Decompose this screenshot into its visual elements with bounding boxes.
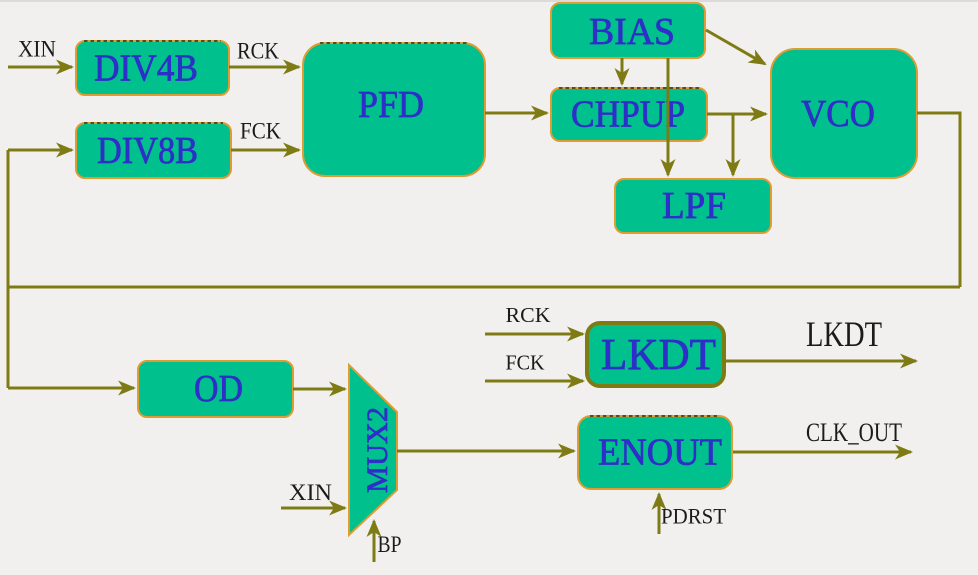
wire feedback horizontal bbox=[8, 286, 960, 289]
block DIV4B bbox=[76, 41, 229, 95]
wire BIAS down to CHPUP bbox=[621, 58, 624, 84]
svg-text:XIN: XIN bbox=[289, 480, 332, 505]
svg-text:OD: OD bbox=[194, 368, 243, 410]
wire PDRST into ENOUT bbox=[658, 494, 661, 534]
wire RCK from DIV4B to PFD bbox=[229, 66, 299, 69]
wire RCK into LKDT bbox=[485, 333, 583, 336]
svg-text:XIN: XIN bbox=[18, 37, 56, 62]
wire PFD to CHPUP bbox=[485, 112, 547, 115]
svg-text:BP: BP bbox=[378, 532, 402, 557]
wire to OD bbox=[8, 387, 134, 390]
wire MUX2 to ENOUT bbox=[397, 450, 574, 453]
wire XIN input to DIV4B bbox=[8, 66, 72, 69]
svg-text:DIV4B: DIV4B bbox=[94, 48, 198, 90]
wire BIAS through to LPF bbox=[667, 58, 670, 175]
block BIAS bbox=[551, 3, 705, 58]
svg-text:DIV8B: DIV8B bbox=[97, 130, 198, 172]
block ENOUT bbox=[578, 416, 732, 489]
svg-text:RCK: RCK bbox=[237, 39, 279, 64]
svg-text:LKDT: LKDT bbox=[601, 330, 716, 379]
wire XIN to MUX2 bbox=[281, 507, 345, 510]
block VCO bbox=[771, 49, 917, 178]
mux MUX2 bbox=[349, 365, 397, 535]
block CHPUP bbox=[551, 88, 707, 141]
wire BP into MUX2 bbox=[373, 521, 376, 562]
svg-text:MUX2: MUX2 bbox=[361, 407, 394, 493]
wire BIAS diagonal to VCO bbox=[706, 30, 765, 64]
svg-text:VCO: VCO bbox=[801, 93, 875, 135]
block LKDT bbox=[587, 323, 724, 386]
svg-text:BIAS: BIAS bbox=[589, 11, 675, 53]
wire VCO output to feedback bbox=[917, 113, 960, 287]
svg-text:FCK: FCK bbox=[240, 119, 281, 144]
wire OD to MUX2 bbox=[293, 388, 345, 391]
wire CHPUP to VCO bbox=[707, 113, 766, 116]
wire branch down to LPF bbox=[732, 114, 735, 175]
svg-text:PFD: PFD bbox=[358, 84, 424, 126]
svg-text:FCK: FCK bbox=[506, 351, 545, 375]
wire feedback vertical left bbox=[7, 150, 10, 388]
wire ENOUT output CLK_OUT bbox=[733, 451, 911, 454]
svg-text:PDRST: PDRST bbox=[661, 504, 727, 529]
wire LKDT output bbox=[725, 360, 916, 363]
wire FCK from DIV8B to PFD bbox=[231, 149, 299, 152]
svg-text:LPF: LPF bbox=[662, 185, 726, 227]
svg-text:CLK_OUT: CLK_OUT bbox=[806, 418, 902, 447]
svg-text:ENOUT: ENOUT bbox=[598, 432, 722, 474]
svg-text:RCK: RCK bbox=[506, 303, 551, 327]
block LPF bbox=[615, 179, 771, 233]
block PFD bbox=[303, 43, 485, 176]
block OD bbox=[138, 361, 293, 417]
block DIV8B bbox=[76, 123, 231, 178]
wire FCK into LKDT bbox=[485, 380, 583, 383]
svg-text:LKDT: LKDT bbox=[806, 314, 882, 354]
wire into DIV8B bbox=[8, 149, 72, 152]
